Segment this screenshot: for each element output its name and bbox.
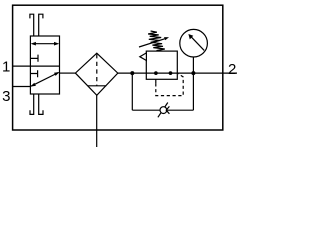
valve V1 blocked port (top box) <box>30 55 38 62</box>
regulator R1 relief vent triangle <box>140 53 147 61</box>
pressure gauge G1 needle <box>188 34 204 50</box>
pressure gauge G1 dial <box>180 29 208 57</box>
valve V1 body (3/2-way hand slide valve, two position boxes) <box>30 36 59 94</box>
wire valve to filter <box>60 72 76 74</box>
wire filter to regulator / port 2 main line <box>118 72 237 74</box>
border frame <box>13 5 223 130</box>
junction at bypass left <box>130 71 134 75</box>
filter F1 body (diamond) <box>75 53 117 95</box>
check valve seat diagonal <box>158 103 168 118</box>
valve V1 flow path arrow (bottom box, port 3 to output) <box>30 72 59 87</box>
filter F1 element (dashed) <box>96 54 98 86</box>
gauge stem wire <box>192 57 194 73</box>
junction at gauge stem <box>191 71 195 75</box>
filter F1 water separator chord <box>88 85 107 87</box>
regulator R1 outlet node <box>169 71 173 75</box>
wire port 1 <box>13 65 31 67</box>
svg-text:3: 3 <box>2 88 10 105</box>
regulator R1 adjustment spring <box>148 31 165 51</box>
valve V1 double-headed arrow (slide position 1) <box>31 42 60 46</box>
wire bypass branch down <box>131 73 133 110</box>
svg-text:2: 2 <box>228 61 236 78</box>
regulator R1 inlet node <box>154 71 158 75</box>
valve V1 bottom slide handle <box>30 94 43 114</box>
wire bypass bottom <box>132 109 193 111</box>
filter F1 drain line <box>96 95 98 147</box>
regulator R1 body <box>146 51 177 79</box>
valve V1 position divider <box>30 65 59 67</box>
wire bypass up <box>192 73 194 110</box>
valve V1 top slide handle <box>30 14 43 36</box>
regulator R1 pilot stub <box>155 79 157 83</box>
check valve seat wedge <box>166 106 169 113</box>
valve V1 blocked port (bottom box) <box>30 70 37 77</box>
check valve ball <box>160 107 167 114</box>
wire port 3 <box>13 86 31 88</box>
regulator R1 pilot line (dashed) <box>156 74 183 96</box>
regulator R1 adjustment arrow <box>139 37 169 47</box>
svg-text:1: 1 <box>2 58 10 75</box>
